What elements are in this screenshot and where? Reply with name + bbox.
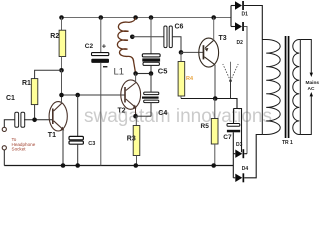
wire: T2 collector up [135,74,137,83]
node R2/R1 junction [59,68,64,73]
resistor R1 [22,79,38,105]
node T3 collector / R5 top [213,96,218,101]
wire: R3 bottom lead [136,156,138,166]
capacitor C1 [6,95,25,127]
svg-text:C5: C5 [158,67,168,76]
TR1 secondary winding [293,40,301,135]
node L1 tap [130,35,135,40]
node L1 top [133,15,138,20]
wire: T1 emitter down [62,130,64,166]
wire: R5 bottom lead [214,144,216,166]
wire: L1 bottom to C5 bottom [136,73,151,75]
transistor T2 [118,80,141,115]
node R2 top [59,15,64,20]
node R5 on bottom rail [211,163,216,168]
svg-text:D2: D2 [237,40,244,46]
TR1 primary winding [262,40,280,135]
node R4 top / T3 base [179,50,184,55]
svg-text:C2: C2 [85,43,94,50]
transistor T1 [48,102,68,139]
node R1/C1/T1 base [32,118,37,123]
wire: C2 bottom lead to bottom rail [100,63,102,166]
resistor R4 [178,62,194,97]
node T1 collector [59,93,64,98]
wire: D1 cathode to transformer [244,6,262,40]
wire: C3 top lead [77,95,79,136]
wire: C6 to R4/T3 base [172,37,181,53]
wire: L1 tap to C6 [132,36,164,38]
svg-text:swagatam innovations: swagatam innovations [84,106,272,127]
node R3 on bottom rail [134,163,139,168]
diode D2 [231,22,244,46]
svg-text:D4: D4 [242,166,249,172]
wire: C1 to T1 base [24,119,53,121]
wire: R2 node down to T1 collector node [61,70,63,95]
svg-text:D1: D1 [242,12,249,18]
svg-text:Socket: Socket [12,147,27,152]
wire: T3 base wire [181,51,203,53]
capacitor C6 [164,24,184,48]
label: Mains AC [306,80,320,92]
svg-text:D3: D3 [236,142,243,148]
svg-text:+: + [102,41,107,50]
svg-text:R4: R4 [186,76,194,82]
svg-text:R5: R5 [201,123,210,130]
svg-text:C3: C3 [88,141,95,147]
wire: C4 bottom lead [150,103,152,117]
transformer TR1 [262,36,300,146]
wire: C5 top lead [150,18,152,54]
wire: R3 top lead [135,116,137,125]
resistor R5 [201,119,219,145]
wire: C4 top lead [150,74,152,93]
capacitor C3 [69,136,95,147]
svg-text:Mains: Mains [306,80,320,86]
wire: secondary top lead with arrow [300,40,313,78]
terminal: headphone tip [2,127,6,131]
svg-text:TR 1: TR 1 [282,140,293,146]
wire: C7 top lead with jog to D3 [234,109,242,153]
node T1 emitter on bottom rail [61,163,66,168]
wire: C2 top lead [100,18,102,53]
svg-text:C1: C1 [6,95,15,102]
antenna [223,62,238,99]
terminal: headphone sleeve [2,146,6,150]
wire: D1/D2 input column [230,6,232,27]
svg-text:R2: R2 [50,33,59,40]
svg-text:AC: AC [308,86,315,92]
TR1 secondary rail [299,40,301,135]
wire: D4 cathode to transformer bottom [244,135,262,178]
node C5 top [149,15,154,20]
wire: R5 top lead [214,99,216,119]
svg-text:C7: C7 [223,134,232,141]
node T3 emitter top [211,15,216,20]
wire: branch to R1 [35,70,62,78]
wire: emitter node to C4 bottom [136,115,152,117]
wire: secondary bottom lead with arrow [300,92,313,135]
diode D4 [233,166,248,182]
node C3 on bottom rail [75,163,80,168]
node L1 bottom / T2 collector [133,71,138,76]
wire: R4 top lead [180,52,182,61]
diode D3 [233,142,247,158]
svg-text:R1: R1 [22,80,31,87]
TR1 core [285,36,287,138]
wire: T2 emitter down [135,108,137,116]
svg-text:C4: C4 [158,110,167,117]
capacitor C2 (electrolytic) [85,41,109,67]
wire: bottom common rail [4,165,233,167]
node T2 emitter [133,114,138,119]
wire: T1 collector up [61,95,63,103]
resistor R3 [127,126,140,156]
capacitor C7 [223,109,240,142]
transistor T3 [199,35,227,67]
capacitor C5 [142,54,167,76]
wire: T3 emitter from top rail [213,18,215,41]
node C5/C4 junction [149,71,154,76]
wire: emitter node rail (R4 to C7 corner) [181,99,237,109]
svg-text:C6: C6 [175,24,184,31]
wire: R2 top lead [61,18,63,31]
wire: R2 bottom lead to node [61,57,63,71]
TR1 primary rail [261,40,263,135]
resistor R2 [50,30,65,56]
node C3 tap [75,93,80,98]
svg-text:T2: T2 [118,108,126,115]
svg-text:T3: T3 [219,35,227,42]
svg-text:T1: T1 [48,132,56,139]
node C2 top [99,15,104,20]
capacitor C4 [142,92,167,117]
svg-text:R3: R3 [127,136,136,143]
wire: T3 collector down [214,65,216,99]
wire: T1 collector to T2 base [62,94,125,96]
wire: C7 bottom lead / D3-D4 anode column [232,132,234,178]
wire: C5 bottom lead [150,65,152,73]
wire: top supply rail [62,17,232,19]
wire: terminal to C1 [4,120,15,128]
wire: C3 bottom lead [77,144,79,165]
wire: lower terminal to bottom rail [3,150,5,166]
svg-text:L1: L1 [114,67,125,78]
wire: R1 bottom lead [34,105,36,120]
wire: R4 bottom lead [180,96,182,99]
inductor L1 [114,18,136,78]
wire: D2 cathode down to D3 cathode [244,27,247,154]
diode D1 [231,1,248,18]
